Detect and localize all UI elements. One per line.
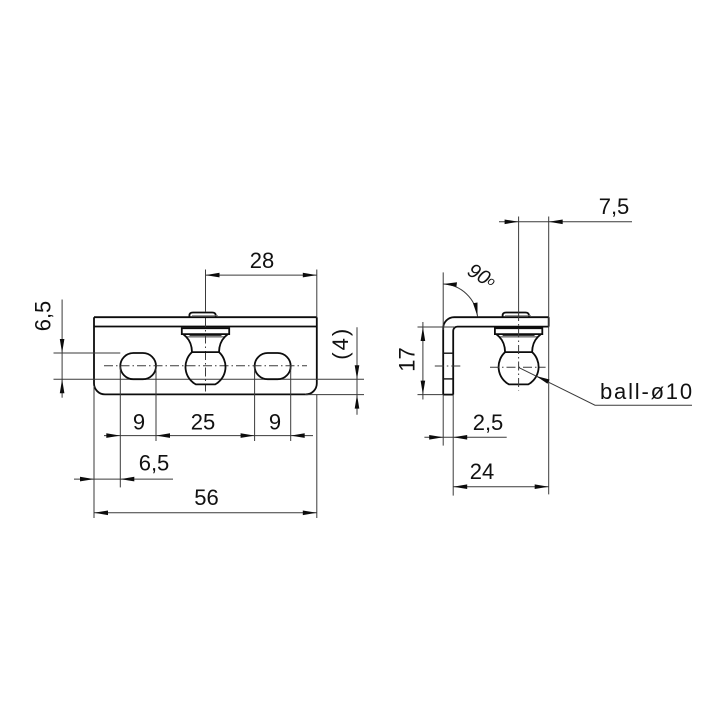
side stud cone line 1 bbox=[503, 335, 535, 337]
dimension 28 left extension (stud center) bbox=[205, 270, 207, 312]
dimension 6,5 slot-height line bbox=[61, 300, 63, 398]
dimension 17 bottom arrow bbox=[421, 381, 426, 395]
angle 90 top arrow bbox=[443, 282, 457, 287]
dimension 56 left extension bbox=[93, 386, 95, 518]
dimension 17 top arrow bbox=[421, 327, 426, 341]
svg-text:17: 17 bbox=[395, 347, 420, 371]
dimension 28 right arrow bbox=[303, 273, 317, 278]
side stud ball/neck junction line bbox=[505, 351, 532, 353]
svg-text:28: 28 bbox=[250, 248, 274, 273]
dimension 7,5 stud center extension bbox=[518, 217, 520, 312]
left slot bbox=[120, 353, 156, 379]
side stud ball bbox=[499, 352, 539, 384]
dimension 2,5 outer-leg extension bbox=[442, 395, 444, 446]
side stud rivet tab bbox=[503, 313, 529, 318]
slot edge extension line d bbox=[290, 367, 292, 442]
side stud neck left bbox=[497, 334, 506, 352]
svg-text:25: 25 bbox=[191, 410, 215, 435]
dimension 56 left arrow bbox=[94, 511, 108, 516]
dimension (4) line bbox=[356, 327, 358, 415]
front stud rivet tab inner line bbox=[192, 315, 218, 317]
side plate right end edge bbox=[548, 317, 550, 326]
dimension (4) bottom arrow bbox=[355, 395, 360, 409]
front stud neck left bbox=[183, 334, 192, 352]
svg-text:(4): (4) bbox=[328, 327, 353, 360]
dimension 7,5 left arrow bbox=[505, 220, 519, 225]
dimension (4) top arrow bbox=[355, 365, 360, 379]
side leg inner edge and bend bbox=[453, 327, 549, 395]
dimension 7,5 right arrow bbox=[549, 220, 563, 225]
side stud rivet tab inner line bbox=[505, 315, 531, 317]
svg-text:2,5: 2,5 bbox=[473, 410, 504, 435]
dimension 17 top extension bbox=[418, 326, 456, 328]
slot top tangent extension line (left) bbox=[54, 352, 121, 354]
front stud rivet tab bbox=[189, 313, 215, 318]
front plate right edge bbox=[306, 317, 317, 394]
svg-text:7,5: 7,5 bbox=[599, 194, 630, 219]
dimension (4) bottom extension line bbox=[306, 394, 364, 396]
dimension 6,5 lower right arrow bbox=[120, 477, 134, 482]
front stud ball bbox=[185, 352, 225, 384]
right slot bbox=[255, 353, 291, 379]
side ball horizontal centerline bbox=[490, 366, 546, 368]
dimension 25 left arrow bbox=[156, 433, 170, 438]
slot edge extension line c bbox=[254, 367, 256, 442]
dimension 2,5 left arrow bbox=[429, 435, 443, 440]
dimension 28 line bbox=[206, 274, 317, 276]
ball leader line bbox=[519, 367, 692, 405]
dimension 24 right arrow bbox=[535, 484, 549, 489]
svg-text:9: 9 bbox=[269, 410, 281, 435]
side slot lower tick bbox=[443, 378, 453, 380]
front plate left edge bbox=[94, 317, 105, 394]
dimension 56 right extension bbox=[316, 394, 318, 518]
front plate top edge bbox=[94, 316, 317, 318]
front stud cone line 2 bbox=[187, 336, 225, 338]
dimension 6,5 slot-height bottom arrow bbox=[60, 379, 65, 393]
dimension 56 right arrow bbox=[303, 511, 317, 516]
svg-text:24: 24 bbox=[470, 459, 494, 484]
side leg centerline bbox=[435, 365, 461, 367]
dimension 2,5 inner-leg / 24 extension bbox=[452, 395, 454, 496]
dimension 6,5 slot-height top arrow bbox=[60, 339, 65, 353]
side leg outer edge and bend bbox=[443, 317, 549, 394]
slot bottom tangent extension line (full width) bbox=[54, 378, 365, 380]
front stud flange bbox=[182, 328, 229, 334]
dimension 24 line bbox=[453, 486, 549, 488]
dimension 9 right outside arrow bbox=[291, 433, 305, 438]
dimension 9 left outside arrow bbox=[106, 433, 120, 438]
svg-text:6,5: 6,5 bbox=[139, 451, 170, 476]
dimension 28 right extension bbox=[316, 270, 318, 318]
svg-text:6,5: 6,5 bbox=[31, 301, 56, 332]
side leg bottom edge bbox=[443, 394, 453, 396]
svg-text:ball-ø10: ball-ø10 bbox=[600, 379, 694, 404]
dimension 6,5 lower left arrow bbox=[80, 477, 94, 482]
slot edge extension line b bbox=[155, 367, 157, 442]
dimension 56 line bbox=[94, 512, 317, 514]
dimension 7,5 line bbox=[499, 221, 632, 223]
dimension 2,5 line bbox=[424, 436, 506, 438]
dimension 24 left arrow bbox=[453, 484, 467, 489]
svg-text:9: 9 bbox=[133, 410, 145, 435]
angle 90 extension line up bbox=[442, 272, 444, 330]
dimension 25 right arrow bbox=[241, 433, 255, 438]
front horizontal centerline bbox=[104, 365, 307, 367]
dimension 17 line bbox=[422, 322, 424, 400]
front stud vertical centerline bbox=[205, 318, 207, 392]
front stud cone line 1 bbox=[190, 335, 222, 337]
front stud neck right bbox=[219, 334, 228, 352]
side stud neck right bbox=[532, 334, 541, 352]
dimension 6,5 lower line bbox=[74, 478, 173, 480]
svg-text:56: 56 bbox=[194, 485, 218, 510]
front plate bottom edge bbox=[105, 393, 306, 395]
angle 90 arc bbox=[443, 284, 477, 317]
side stud vertical centerline bbox=[518, 312, 520, 391]
front flange underside line bbox=[94, 326, 317, 328]
ball leader arrow bbox=[536, 376, 550, 384]
dimension 28 left arrow bbox=[206, 273, 220, 278]
dimension 17 bottom extension bbox=[418, 394, 444, 396]
side stud flange bbox=[495, 328, 542, 334]
dimension 2,5 right arrow bbox=[453, 435, 467, 440]
angle 90 bottom arrow bbox=[473, 303, 478, 317]
slot edge extension line a bbox=[119, 367, 121, 488]
dimension 7,5 / 24 right extension bbox=[548, 217, 550, 495]
front stud ball/neck junction line bbox=[192, 351, 219, 353]
dimension 9-25-9 line bbox=[104, 435, 313, 437]
side stud cone line 2 bbox=[500, 336, 538, 338]
side slot upper tick bbox=[443, 352, 453, 354]
